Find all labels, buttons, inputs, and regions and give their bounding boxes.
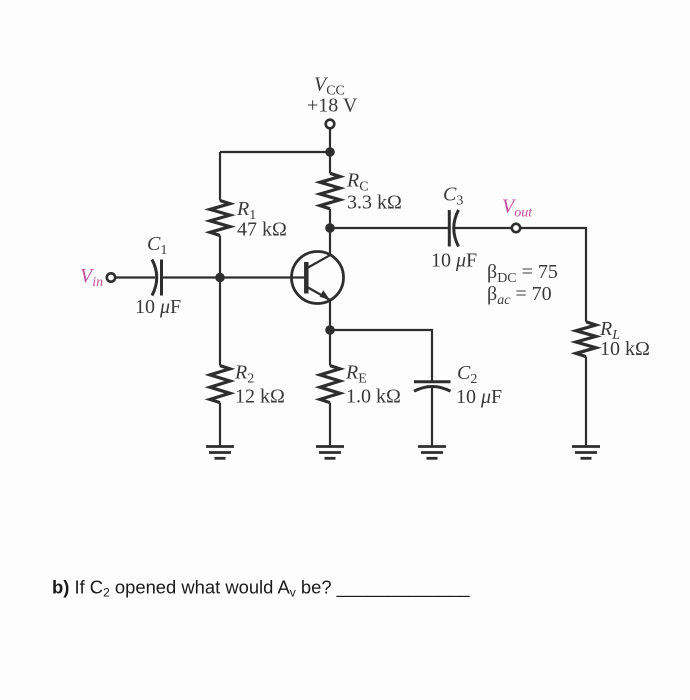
- capacitor C3: [449, 210, 458, 247]
- svg-text:+18 V: +18 V: [307, 95, 358, 117]
- wire emitter to node: [329, 300, 331, 330]
- wire emitter node to RE: [329, 330, 331, 366]
- capacitor C2: [414, 382, 451, 392]
- node emitter junction: [325, 325, 335, 335]
- svg-text:1.0 kΩ: 1.0 kΩ: [346, 386, 401, 408]
- capacitor C1: [152, 260, 162, 296]
- svg-text:10 μF: 10 μF: [431, 250, 477, 272]
- wire base node to transistor: [220, 276, 304, 278]
- svg-text:RE: RE: [345, 362, 367, 387]
- wire RL to ground: [585, 357, 587, 446]
- transistor Q1: [292, 252, 344, 304]
- wire R1 to base node: [219, 236, 221, 278]
- ground R2: [206, 447, 234, 459]
- wire RE to ground: [329, 403, 331, 446]
- svg-text:C3: C3: [443, 184, 463, 209]
- ground C2: [418, 447, 446, 459]
- wire RC to collector node: [329, 209, 331, 228]
- svg-text:Vout: Vout: [502, 196, 533, 221]
- resistor R1: [210, 201, 230, 236]
- wire Vin to C1: [115, 276, 155, 278]
- wire emitter node to C2: [330, 330, 432, 382]
- input terminal Vin: [107, 273, 115, 281]
- wire collector node to C3: [330, 227, 449, 229]
- wire C1 to base node: [162, 276, 221, 278]
- svg-text:C1: C1: [147, 233, 167, 258]
- ground RE: [316, 447, 344, 459]
- resistor RC: [320, 173, 340, 209]
- junction VCC rail: [325, 147, 335, 157]
- wire R2 to ground: [219, 403, 221, 446]
- svg-text:C2: C2: [457, 362, 477, 387]
- wire C3 to Vout: [454, 227, 512, 229]
- node collector junction: [325, 223, 335, 233]
- node base junction: [215, 273, 225, 283]
- power terminal VCC: [326, 120, 335, 129]
- wire rail to R1: [219, 152, 221, 201]
- question text: [52, 577, 470, 600]
- wire C2 to ground: [431, 387, 433, 446]
- wire top rail: [220, 151, 330, 153]
- wire collector node to transistor: [329, 228, 331, 255]
- svg-text:10 μF: 10 μF: [135, 296, 181, 318]
- resistor RE: [320, 366, 340, 403]
- svg-text:βac = 70: βac = 70: [487, 283, 552, 308]
- svg-text:10 μF: 10 μF: [456, 386, 502, 408]
- wire Vout to RL branch: [520, 228, 586, 322]
- svg-text:b) If C2 opened what would Av: b) If C2 opened what would Av be? ______…: [52, 577, 470, 600]
- output terminal Vout: [512, 224, 520, 232]
- svg-text:R2: R2: [234, 362, 254, 387]
- resistor R2: [210, 366, 230, 403]
- svg-text:3.3 kΩ: 3.3 kΩ: [347, 192, 402, 214]
- ground RL: [572, 447, 600, 459]
- svg-text:47 kΩ: 47 kΩ: [237, 219, 287, 241]
- wire base node to R2: [219, 278, 221, 366]
- svg-text:12 kΩ: 12 kΩ: [235, 386, 285, 408]
- svg-text:10 kΩ: 10 kΩ: [600, 338, 650, 360]
- resistor RL: [576, 322, 596, 357]
- svg-text:Vin: Vin: [80, 265, 103, 290]
- wire rail to RC: [329, 152, 331, 173]
- wire VCC terminal to rail: [329, 129, 331, 153]
